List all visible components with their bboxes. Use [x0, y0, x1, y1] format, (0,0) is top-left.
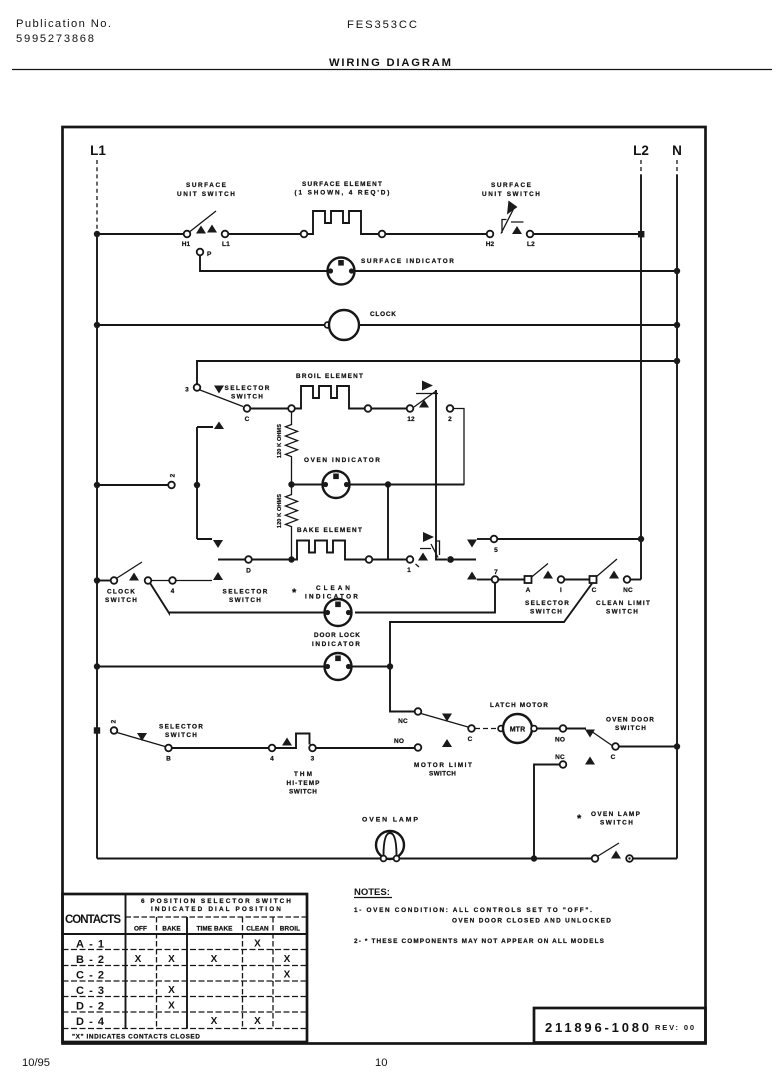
wire L1 terminal to surface element — [229, 233, 302, 235]
svg-text:P: P — [207, 251, 212, 258]
clean indicator pilot lamp — [325, 599, 352, 626]
wire L1 bus — [96, 231, 98, 859]
svg-text:L1: L1 — [90, 143, 106, 158]
svg-text:X: X — [254, 1016, 261, 1027]
svg-text:SWITCH: SWITCH — [231, 394, 263, 401]
svg-text:211896-1080: 211896-1080 — [545, 1020, 650, 1035]
resistor upper 120 K OHMS — [286, 412, 298, 482]
wire arrow to terminal 7 — [477, 579, 492, 581]
svg-text:CLOCK: CLOCK — [370, 311, 396, 318]
surface unit switch left terminal H1 — [184, 231, 191, 238]
svg-text:Publication No.: Publication No. — [16, 18, 111, 30]
svg-text:CLEAN LIMIT: CLEAN LIMIT — [596, 600, 650, 607]
wire C diagonal drop — [390, 584, 592, 712]
svg-text:3: 3 — [185, 387, 189, 394]
surface unit switch left label — [177, 182, 235, 198]
selector terminal B — [165, 745, 172, 752]
svg-text:BAKE: BAKE — [162, 926, 181, 933]
svg-text:N: N — [672, 143, 682, 158]
wire NO stub — [567, 728, 587, 730]
broil element right terminal — [365, 405, 372, 412]
svg-text:LATCH MOTOR: LATCH MOTOR — [490, 702, 548, 709]
svg-text:CLOCK: CLOCK — [107, 589, 135, 596]
oven thermostat upper arrow — [419, 400, 429, 408]
clean limit switch arrow — [609, 571, 619, 579]
wire L1 to selector branch — [97, 484, 168, 486]
surface element left terminal — [301, 231, 308, 238]
junction L2 terminal 5 — [638, 536, 644, 542]
selector switch B blade — [117, 733, 165, 747]
contacts row B-2 — [76, 954, 291, 966]
header publication number — [16, 18, 111, 45]
wire D to bake element — [252, 559, 289, 561]
junction oven indicator line left — [288, 481, 294, 487]
motor limit switch arrow NO — [442, 739, 452, 747]
bake element right terminal — [366, 556, 373, 563]
junction N broil feeder — [674, 358, 680, 364]
bake selector terminal D — [245, 556, 252, 563]
note 1 — [354, 907, 611, 925]
svg-text:C: C — [468, 736, 473, 743]
oven door switch arrow NC — [585, 757, 595, 765]
svg-text:SWITCH: SWITCH — [600, 820, 633, 827]
oven thermostat upper blade — [414, 391, 438, 407]
wire 7 drop to clean indicator line — [355, 583, 495, 613]
svg-text:7: 7 — [494, 569, 498, 576]
svg-text:UNIT SWITCH: UNIT SWITCH — [482, 191, 540, 198]
hi-temp terminal 3 — [309, 745, 316, 752]
svg-text:X: X — [254, 939, 261, 950]
selector switch broil arrow — [214, 386, 224, 394]
svg-text:120 K OHMS: 120 K OHMS — [277, 424, 283, 458]
selector switch clean label — [525, 600, 569, 616]
clock switch blade — [117, 562, 142, 578]
junction N surface indicator — [674, 268, 680, 274]
surface unit switch terminal P — [197, 249, 204, 256]
wire 3 to motor limit NO — [316, 747, 415, 749]
wire clock switch drop diagonal — [150, 583, 169, 613]
wire surface indicator to N — [355, 270, 678, 272]
svg-text:SWITCH: SWITCH — [165, 732, 197, 739]
revision box — [534, 1008, 706, 1043]
contacts row C-3 — [76, 985, 175, 997]
svg-text:SURFACE: SURFACE — [186, 182, 227, 189]
svg-text:10/95: 10/95 — [22, 1057, 50, 1069]
svg-text:NO: NO — [555, 737, 565, 744]
surface unit switch right arrow top — [507, 201, 518, 215]
wire lamp switch to N — [633, 858, 677, 860]
oven thermostat lower arrow right — [423, 532, 434, 542]
surface unit switch left arrow 1 — [196, 226, 206, 234]
motor limit switch terminal NO — [415, 744, 422, 751]
oven thermostat lower arrow — [418, 553, 428, 561]
svg-text:SWITCH: SWITCH — [429, 771, 456, 778]
svg-text:C: C — [592, 587, 597, 594]
resistor lower 120 K OHMS — [286, 485, 298, 557]
svg-text:SWITCH: SWITCH — [229, 597, 261, 604]
surface element right terminal — [379, 231, 386, 238]
wire broil element to thermostat 12 — [372, 408, 407, 410]
selector terminal 4 — [169, 577, 176, 584]
oven door switch terminal NC — [560, 761, 567, 768]
wire L1 to clock switch — [97, 580, 111, 582]
svg-text:2- * THESE COMPONENTS MAY NOT: 2- * THESE COMPONENTS MAY NOT APPEAR ON … — [354, 938, 605, 945]
wire latch motor to NO — [537, 728, 560, 730]
selector switch clean terminal A — [525, 576, 532, 583]
selector switch terminal 3 — [194, 384, 201, 391]
junction L1 clock — [94, 322, 100, 328]
selector switch label bake — [223, 589, 268, 605]
hi-temp arrow — [282, 738, 292, 746]
selector arrow near D — [213, 572, 223, 580]
svg-text:BROIL: BROIL — [280, 926, 300, 933]
svg-text:5995273868: 5995273868 — [16, 33, 94, 45]
wire N bus dashed top — [676, 160, 678, 175]
svg-text:SWITCH: SWITCH — [289, 789, 317, 796]
oven door switch arrow NO — [585, 730, 595, 738]
svg-text:SWITCH: SWITCH — [615, 725, 646, 732]
wire L2 terminal to L2 bus — [534, 233, 642, 235]
wire bake line open end — [451, 559, 477, 561]
svg-text:120 K OHMS: 120 K OHMS — [277, 494, 283, 528]
svg-text:B-2: B-2 — [76, 954, 104, 966]
svg-text:CLEAN: CLEAN — [316, 585, 350, 592]
oven thermostat upper arrow right — [422, 381, 433, 391]
wire clean indicator left lead — [169, 612, 325, 614]
wire L2 bus dashed top — [640, 160, 642, 175]
junction N clock — [674, 322, 680, 328]
svg-text:SELECTOR: SELECTOR — [159, 724, 203, 731]
oven thermostat upper terminal 12 — [407, 405, 414, 412]
wire L1 bus dashed top — [96, 160, 98, 231]
svg-text:SELECTOR: SELECTOR — [225, 385, 270, 392]
oven door switch label — [606, 717, 654, 733]
svg-text:B: B — [166, 756, 171, 763]
svg-text:X: X — [168, 985, 175, 996]
svg-text:NC: NC — [555, 754, 565, 761]
svg-text:X: X — [284, 954, 291, 965]
selector switch terminal C — [244, 405, 251, 412]
clock switch terminal left — [111, 577, 118, 584]
svg-text:SWITCH: SWITCH — [530, 609, 562, 616]
selector branch arrow up — [214, 422, 224, 430]
contacts row A-1 — [76, 939, 261, 951]
svg-text:SELECTOR: SELECTOR — [525, 600, 569, 607]
wire 4 to selector arrow — [176, 580, 212, 582]
oven lamp switch terminal left — [592, 855, 599, 862]
contacts table verticals — [126, 894, 188, 1029]
oven thermostat lower tick mark — [416, 564, 420, 567]
svg-text:BAKE ELEMENT: BAKE ELEMENT — [297, 527, 362, 534]
svg-text:SURFACE INDICATOR: SURFACE INDICATOR — [361, 258, 454, 265]
wire bottom lamp line — [97, 858, 381, 860]
svg-text:L1: L1 — [222, 241, 230, 248]
svg-text:SELECTOR: SELECTOR — [223, 589, 268, 596]
wire C to latch motor — [475, 728, 498, 730]
wire L1 to clock — [97, 324, 328, 326]
svg-text:C-3: C-3 — [76, 985, 104, 997]
svg-text:"X" INDICATES CONTACTS CLOSED: "X" INDICATES CONTACTS CLOSED — [72, 1034, 200, 1041]
header rule — [12, 69, 772, 71]
svg-text:OVEN LAMP: OVEN LAMP — [362, 817, 418, 824]
svg-text:SURFACE: SURFACE — [491, 182, 532, 189]
contacts table header rules — [126, 916, 308, 918]
oven indicator pilot lamp — [323, 471, 350, 498]
motor limit switch terminal C — [468, 725, 475, 732]
svg-text:BROIL ELEMENT: BROIL ELEMENT — [296, 373, 363, 380]
svg-text:CONTACTS: CONTACTS — [65, 914, 121, 926]
junction L1 clock switch — [94, 577, 100, 583]
broil element heater coil — [295, 386, 365, 409]
clean limit switch terminal NC — [624, 576, 631, 583]
wire selector branch vertical — [197, 427, 213, 539]
wire B to 4 — [172, 747, 269, 749]
oven thermostat upper terminal 2 — [447, 405, 454, 412]
bake element heater coil — [292, 541, 366, 560]
oven door switch terminal C — [612, 743, 619, 750]
junction bake line right — [447, 556, 454, 563]
svg-text:THM: THM — [294, 771, 312, 778]
wire L1 to H1 — [97, 233, 184, 235]
surface unit switch left terminal L1 — [222, 231, 229, 238]
junction oven indicator line — [385, 481, 391, 487]
junction L2 main — [638, 231, 644, 237]
wire surface element to H2 — [386, 233, 487, 235]
svg-text:NC: NC — [623, 587, 633, 594]
junction L1 selector 2 — [94, 727, 100, 733]
svg-text:MTR: MTR — [510, 727, 526, 734]
surface unit switch left arrow 2 — [207, 225, 217, 233]
schematic border frame — [63, 127, 706, 1044]
wire junction to lamp switch — [537, 858, 592, 860]
oven lamp switch blade — [598, 843, 619, 856]
svg-text:SURFACE ELEMENT: SURFACE ELEMENT — [302, 181, 382, 188]
svg-text:(1 SHOWN, 4 REQ'D): (1 SHOWN, 4 REQ'D) — [295, 190, 390, 197]
selector branch arrow down — [213, 540, 223, 548]
svg-text:SWITCH: SWITCH — [105, 597, 137, 604]
surface element heater coil — [308, 211, 379, 234]
svg-text:H2: H2 — [486, 241, 495, 248]
wire L1 to door lock indicator — [97, 666, 324, 668]
svg-text:NOTES:: NOTES: — [354, 887, 390, 898]
svg-text:REV: 00: REV: 00 — [655, 1023, 694, 1032]
svg-text:NO: NO — [394, 738, 404, 745]
wire thermostat to bake junction — [436, 544, 447, 560]
selector terminal 7 — [492, 576, 499, 583]
oven thermostat link wire — [435, 390, 437, 544]
oven thermostat lower blade — [420, 541, 440, 558]
door lock indicator label — [312, 632, 360, 648]
oven door switch terminal NO — [560, 725, 567, 732]
surface unit switch right arrow — [512, 226, 522, 234]
svg-text:L2: L2 — [527, 241, 535, 248]
contacts table row rules — [63, 950, 308, 1029]
motor limit switch blade — [421, 714, 468, 728]
surface unit switch right label — [482, 182, 540, 198]
svg-text:INDICATED DIAL POSITION: INDICATED DIAL POSITION — [151, 906, 281, 913]
hi-temp bridge contact — [276, 734, 310, 749]
svg-text:2: 2 — [448, 416, 452, 423]
svg-text:2: 2 — [170, 473, 177, 477]
oven thermostat lower terminal 1 — [407, 556, 414, 563]
oven lamp switch label — [577, 811, 641, 827]
clean limit switch label — [596, 600, 650, 616]
latch motor — [498, 714, 537, 743]
svg-text:OFF: OFF — [134, 926, 147, 933]
svg-text:INDICATOR: INDICATOR — [312, 641, 360, 648]
selector switch B arrow — [137, 733, 147, 741]
selector switch broil label — [225, 385, 270, 401]
contacts table header — [141, 898, 291, 913]
svg-text:MOTOR LIMIT: MOTOR LIMIT — [414, 762, 472, 769]
clock switch arrow — [129, 573, 139, 581]
svg-text:NC: NC — [398, 718, 408, 725]
svg-text:*: * — [577, 813, 582, 825]
svg-text:A-1: A-1 — [76, 939, 104, 951]
clean limit switch blade — [596, 559, 617, 577]
clean limit switch terminal C — [590, 576, 597, 583]
surface unit switch left blade — [190, 211, 216, 232]
clock switch terminal right — [145, 577, 152, 584]
svg-text:OVEN DOOR: OVEN DOOR — [606, 717, 654, 724]
wire to oven indicator — [295, 484, 323, 486]
junction L1 main — [94, 231, 100, 237]
svg-text:X: X — [168, 954, 175, 965]
selector terminal 2 — [111, 727, 118, 734]
svg-text:4: 4 — [171, 588, 175, 595]
oven lamp — [376, 831, 404, 861]
junction N oven door — [674, 743, 680, 749]
wire 7 to A — [499, 579, 525, 581]
svg-text:10: 10 — [375, 1057, 387, 1069]
svg-text:OVEN LAMP: OVEN LAMP — [591, 811, 641, 818]
clock switch label — [105, 589, 137, 605]
svg-text:FES353CC: FES353CC — [347, 19, 417, 31]
clean indicator label — [292, 585, 358, 601]
motor limit switch arrow NC — [442, 714, 452, 722]
wire clock switch to selector 4 — [152, 580, 170, 582]
clock motor — [325, 310, 359, 340]
selector arrow to terminal 5 — [467, 540, 477, 548]
svg-text:L2: L2 — [633, 143, 649, 158]
selector switch clean arrow — [543, 571, 553, 579]
svg-text:TIME BAKE: TIME BAKE — [196, 926, 233, 933]
svg-text:I: I — [560, 587, 562, 594]
svg-text:D-2: D-2 — [76, 1001, 104, 1013]
surface unit switch right terminal L2 — [527, 231, 534, 238]
contacts row D-2 — [76, 1001, 175, 1013]
svg-text:X: X — [211, 954, 218, 965]
selector branch terminal 2 — [168, 482, 175, 489]
wire I to C — [565, 579, 590, 581]
wire terminal 2 loop to oven indicator line — [454, 409, 465, 485]
wire NC to L2 riser — [631, 579, 642, 581]
surface indicator pilot lamp — [328, 258, 355, 285]
surface unit switch right blade — [501, 209, 524, 234]
junction lamp line — [531, 855, 537, 861]
contacts row C-2 — [76, 970, 291, 982]
selector arrow to terminal 7 — [467, 572, 477, 580]
selector switch clean blade — [531, 564, 548, 578]
svg-text:*: * — [292, 587, 297, 599]
svg-text:SWITCH: SWITCH — [606, 609, 638, 616]
wire door lock indicator to riser — [352, 666, 391, 668]
wire broil feeder top — [197, 361, 677, 384]
svg-text:CLEAN: CLEAN — [246, 926, 269, 933]
broil element left terminal — [288, 405, 295, 412]
selector switch clean terminal I — [558, 576, 565, 583]
svg-text:1- OVEN CONDITION: ALL CONTROL: 1- OVEN CONDITION: ALL CONTROLS SET TO "… — [354, 907, 592, 914]
wire oven door C to N — [619, 746, 677, 748]
motor limit switch label — [414, 762, 472, 778]
wire junction down to bake line — [387, 485, 389, 560]
svg-text:4: 4 — [270, 756, 274, 763]
svg-text:OVEN DOOR CLOSED AND UNLOCKED: OVEN DOOR CLOSED AND UNLOCKED — [452, 918, 611, 925]
selector switch B label — [159, 724, 203, 740]
hi-temp switch label — [287, 771, 321, 796]
door lock indicator pilot lamp — [325, 653, 352, 680]
svg-text:X: X — [284, 970, 291, 981]
oven lamp switch terminal right — [626, 855, 633, 862]
wire bake element to thermostat 1 — [373, 559, 407, 561]
selector terminal 5 — [491, 536, 498, 543]
surface element label — [295, 181, 390, 197]
junction L1 door lock — [94, 663, 100, 669]
wire clock to N — [359, 324, 677, 326]
junction selector branch — [194, 482, 200, 488]
svg-text:12: 12 — [407, 416, 415, 423]
svg-text:3: 3 — [311, 756, 315, 763]
wire L2 bus — [640, 175, 642, 580]
junction bake element left — [288, 556, 294, 562]
svg-text:5: 5 — [494, 547, 498, 554]
svg-text:A: A — [526, 587, 531, 594]
junction L1 branch — [94, 482, 100, 488]
svg-text:C-2: C-2 — [76, 970, 104, 982]
wire oven indicator to loop — [350, 484, 465, 486]
wire oven door NC drop — [534, 765, 560, 859]
hi-temp terminal 4 — [269, 745, 276, 752]
svg-text:X: X — [168, 1001, 175, 1012]
wire terminal 5 to L2 bus — [498, 538, 642, 540]
wire bake line start — [218, 559, 246, 561]
svg-text:D-4: D-4 — [76, 1016, 105, 1028]
svg-text:HI-TEMP: HI-TEMP — [287, 780, 321, 787]
svg-text:6 POSITION SELECTOR SWITCH: 6 POSITION SELECTOR SWITCH — [141, 898, 291, 905]
svg-text:WIRING DIAGRAM: WIRING DIAGRAM — [329, 57, 451, 69]
contacts table column labels — [134, 926, 300, 933]
surface unit switch right terminal H2 — [487, 231, 494, 238]
contacts table frame — [63, 894, 308, 1042]
svg-text:UNIT SWITCH: UNIT SWITCH — [177, 191, 235, 198]
svg-text:OVEN INDICATOR: OVEN INDICATOR — [304, 457, 380, 464]
wire lamp to junction — [400, 858, 532, 860]
wire P drop to surface indicator line — [200, 256, 327, 272]
svg-text:H1: H1 — [182, 241, 191, 248]
svg-text:X: X — [135, 954, 142, 965]
svg-text:X: X — [211, 1016, 218, 1027]
wire C to broil element — [251, 408, 289, 410]
svg-text:C: C — [245, 416, 250, 423]
junction door lock riser — [387, 663, 393, 669]
contacts row D-4 — [76, 1016, 261, 1028]
notes heading — [354, 887, 392, 898]
wire N bus — [676, 175, 678, 859]
svg-text:D: D — [246, 568, 251, 575]
svg-text:2: 2 — [111, 719, 118, 723]
svg-text:1: 1 — [407, 567, 411, 574]
oven lamp switch arrow — [611, 851, 621, 859]
